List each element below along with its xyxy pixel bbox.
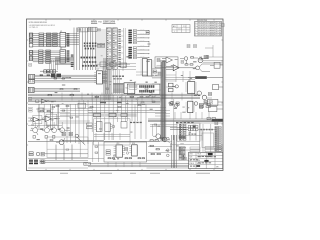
band boxes row	[94, 113, 137, 117]
left mid IC blobs	[50, 60, 62, 77]
svg-text:Q9: Q9	[61, 131, 63, 133]
title block dark cell 2	[197, 160, 209, 167]
black row drops	[190, 130, 202, 141]
strip IC U15	[179, 147, 185, 155]
top center extra marks	[97, 29, 104, 48]
border box B4	[209, 107, 223, 112]
bottom label box	[84, 162, 91, 165]
resistor cluster RC3	[148, 153, 172, 157]
signal arrow fan	[137, 28, 150, 58]
band small parts lower	[56, 105, 141, 108]
right cluster RC9	[199, 103, 222, 107]
svg-text:U7: U7	[97, 69, 99, 71]
misc parts right of fan	[146, 31, 150, 45]
strip interconnect wires	[198, 129, 215, 148]
center vertical mesh 2	[96, 104, 146, 140]
right components 2	[200, 101, 208, 109]
op-amp U11	[28, 115, 42, 123]
svg-text:1. ALL RESISTORS ARE IN OHMS 1: 1. ALL RESISTORS ARE IN OHMS 1/4W 5% 2. …	[29, 24, 55, 27]
K2 extension cells	[42, 160, 45, 164]
parts below comparator	[152, 69, 163, 77]
bottom connector K1	[29, 152, 44, 156]
mid wires left	[34, 75, 96, 91]
resistor cluster RC2	[148, 145, 172, 151]
trunk emphasis	[162, 62, 165, 140]
connector J6	[29, 74, 35, 79]
hatch end cells	[71, 55, 74, 68]
wire bus group A right	[66, 34, 79, 45]
bottom long wires	[62, 141, 189, 167]
bias resistors R20	[185, 60, 193, 65]
connector J5	[29, 56, 33, 61]
IC U7	[94, 69, 104, 84]
U7 right pin hatch	[102, 72, 107, 83]
IC U13	[114, 143, 125, 157]
border box B1	[210, 62, 223, 68]
title block dark cell	[208, 153, 213, 155]
resistor cluster RC1	[148, 137, 172, 141]
bottom right region box	[170, 144, 199, 150]
IC U22 with cell rows	[127, 84, 160, 94]
transistor Q10	[153, 134, 161, 139]
IC U10	[186, 101, 196, 113]
cluster CL1	[87, 123, 93, 129]
strip IC U16	[177, 123, 200, 141]
mid right extra wires	[150, 124, 202, 136]
connector J1	[29, 33, 33, 37]
IC U2	[60, 48, 66, 63]
svg-text:3. IC PWR +5V: 3. IC PWR +5V	[29, 27, 39, 29]
footer page notes	[60, 172, 210, 174]
transistor Q8	[56, 138, 65, 145]
connector grid	[170, 125, 198, 134]
bus inline components	[48, 95, 134, 98]
inline resistors mid	[40, 75, 65, 79]
fold mark tab	[222, 24, 225, 27]
svg-text:REVISIONS: REVISIONS	[197, 20, 207, 22]
connector J4	[29, 50, 33, 55]
U1 pin number column	[67, 33, 70, 46]
svg-text:9-84: 9-84	[217, 27, 221, 29]
bottom long rail	[28, 141, 189, 168]
op-amp U5	[162, 57, 173, 63]
series resistor row R10-R15	[40, 70, 58, 73]
signal cell column C1	[128, 30, 132, 44]
svg-text:PCB: PCB	[98, 22, 102, 24]
bottom connector K2	[29, 160, 44, 165]
mid top boxes row	[96, 62, 130, 71]
wire to right border	[202, 64, 223, 72]
mid parts row 2	[113, 76, 125, 80]
left edge small labels	[29, 63, 33, 112]
wire bus group B mid	[43, 51, 60, 62]
pin-list ladder U4	[113, 28, 118, 69]
opamp area mesh	[165, 71, 195, 82]
trunk right stubs	[155, 111, 170, 117]
svg-text:U14: U14	[132, 143, 135, 145]
transistor Q3	[168, 101, 198, 107]
page border frame	[27, 19, 224, 171]
border box B3	[208, 99, 223, 105]
block component row	[108, 158, 145, 159]
svg-text:9-84: 9-84	[217, 23, 221, 25]
connector J2	[29, 38, 33, 42]
transistor Q4	[30, 126, 38, 136]
resistor network RN4	[39, 50, 43, 63]
analog mesh horizontals	[58, 109, 92, 124]
feedback box parts	[47, 140, 88, 158]
resistor network RN5	[46, 50, 51, 63]
svg-text:NOTES: UNLESS SPECIFIED: NOTES: UNLESS SPECIFIED	[29, 22, 47, 24]
cluster CL3	[105, 123, 113, 131]
border grid tick marks	[27, 19, 224, 171]
mid horizontal stubs	[118, 64, 148, 76]
title block	[189, 152, 223, 168]
wire bus group B dense hatch	[55, 57, 74, 64]
svg-text:9-84: 9-84	[217, 32, 221, 34]
transistor Q5	[42, 128, 49, 133]
quadrant4 extra verticals	[128, 100, 138, 121]
cluster CL2	[94, 122, 102, 132]
right lower wires	[182, 122, 223, 153]
pullup cluster	[206, 56, 223, 59]
right band vertical stubs	[174, 99, 209, 140]
resistor network RN3	[53, 33, 58, 46]
transistor Q11	[163, 137, 172, 144]
connector J8	[28, 87, 34, 92]
junction dots bus	[88, 94, 151, 98]
signal cell column C3	[133, 30, 136, 59]
horizontal data bus	[28, 94, 200, 99]
strip IC U15b	[179, 155, 185, 160]
IC U14	[129, 143, 137, 156]
trunk taps	[152, 72, 176, 102]
analog box small	[38, 108, 44, 112]
bottom left wires	[45, 145, 88, 163]
vertical wires bundle center	[105, 58, 110, 100]
border box B2	[213, 84, 223, 89]
mid connector parts	[125, 148, 129, 155]
transistor Q13	[197, 91, 212, 100]
feedback box outline	[47, 137, 88, 158]
bottom mid parts	[93, 142, 99, 162]
ladder drop wires	[105, 70, 119, 95]
center vertical mesh	[67, 95, 126, 144]
main vertical bus trunk	[161, 60, 166, 141]
bus crossing ticks	[62, 93, 192, 101]
svg-text:SH 1: SH 1	[216, 166, 220, 168]
connector J3	[29, 43, 33, 47]
pin-list ladder U3	[106, 28, 111, 69]
IC U8 with pin hatch	[113, 83, 135, 94]
parts mid gap	[137, 96, 160, 103]
quadrant4 dash marks	[130, 122, 157, 125]
resistor network RN1	[39, 33, 44, 46]
horizontal wires right band	[148, 119, 223, 123]
transistor Q12	[198, 55, 208, 62]
comparator block box	[155, 57, 178, 68]
wires into ladders	[96, 30, 106, 68]
svg-text:U2: U2	[60, 48, 62, 50]
hatch labels	[114, 83, 124, 84]
capacitor C5	[200, 57, 206, 61]
feedback resistors	[36, 108, 54, 112]
U2 pin number column	[67, 50, 70, 61]
connector J7	[29, 80, 35, 84]
bus tap labels row 1	[78, 27, 97, 32]
svg-text:1 2 3: 1 2 3	[178, 29, 182, 31]
mid right small box	[78, 103, 86, 108]
lower center box outline	[94, 119, 130, 145]
analog interconnect	[28, 104, 62, 128]
horizontal bus 2	[28, 102, 160, 104]
svg-text:9-84: 9-84	[217, 35, 221, 37]
center horizontal mesh	[28, 100, 166, 115]
svg-text:MAIN: MAIN	[91, 20, 97, 24]
notes text block	[29, 22, 55, 29]
analog mesh verticals 2	[44, 105, 58, 129]
diagonal wire	[77, 137, 85, 145]
signal cell column C2	[128, 47, 132, 59]
emitter resistors	[33, 136, 55, 139]
bottom box drops	[108, 162, 140, 167]
box internal parts	[94, 122, 130, 137]
resistor network RN2	[46, 33, 51, 46]
svg-text:DWG: DWG	[189, 154, 192, 156]
cells above title block	[190, 147, 222, 152]
strip IC U15a	[179, 135, 185, 139]
analog mesh horizontals 2	[44, 113, 70, 117]
top band inline dashes	[100, 101, 122, 103]
vertical pair wires	[172, 135, 177, 168]
svg-text:U1: U1	[60, 31, 62, 33]
sheet title header	[91, 20, 115, 24]
op-amp U12	[39, 114, 60, 125]
inter-transistor labels	[40, 128, 60, 130]
svg-text:U13: U13	[116, 143, 119, 145]
transistor Q7	[60, 128, 70, 133]
svg-text:SIZE: SIZE	[189, 157, 192, 159]
wire bus group B left	[33, 51, 39, 62]
op-amp U6	[166, 65, 193, 71]
marks near opamp	[181, 60, 184, 63]
vertical address bus	[74, 28, 96, 71]
wire bus group A left	[33, 34, 39, 46]
revisions caption	[197, 20, 207, 22]
tall IC pair U20	[140, 59, 147, 77]
op-amp U30	[36, 99, 57, 103]
analog small parts	[52, 107, 73, 119]
svg-text:TITLE: TITLE	[197, 154, 201, 156]
transistor Q2	[180, 57, 188, 61]
reference table	[172, 25, 190, 33]
center bundle strengthen	[104, 58, 110, 100]
base stubs	[35, 122, 62, 128]
block small labels	[106, 150, 110, 155]
dark net label	[188, 76, 223, 79]
top right border wires	[203, 61, 223, 63]
svg-text:9-84: 9-84	[217, 25, 221, 27]
IC U1	[60, 31, 66, 47]
marks below table	[187, 45, 197, 48]
transistor Q1	[193, 64, 202, 72]
wire inline rects	[207, 117, 215, 119]
tall IC pair U21	[147, 60, 153, 76]
ladder side marks	[117, 28, 125, 68]
bottom left cluster parts	[61, 131, 79, 138]
power supply block box	[104, 142, 147, 162]
resistor R22	[191, 57, 199, 58]
bus tap labels row 3	[81, 57, 98, 67]
wire bus group A mid	[44, 34, 60, 46]
svg-text:9-84: 9-84	[217, 30, 221, 32]
right edge strip pair	[215, 120, 221, 152]
revision history table	[195, 22, 222, 37]
diode cluster D1	[170, 102, 180, 105]
crystal oscillator Y1	[168, 83, 178, 92]
node stub top right	[205, 45, 213, 57]
component value label texture	[31, 31, 206, 160]
bus tap labels row 2	[84, 43, 96, 50]
transistor Q6	[52, 128, 57, 133]
IC U9	[185, 80, 197, 94]
band small parts upper	[60, 88, 155, 97]
